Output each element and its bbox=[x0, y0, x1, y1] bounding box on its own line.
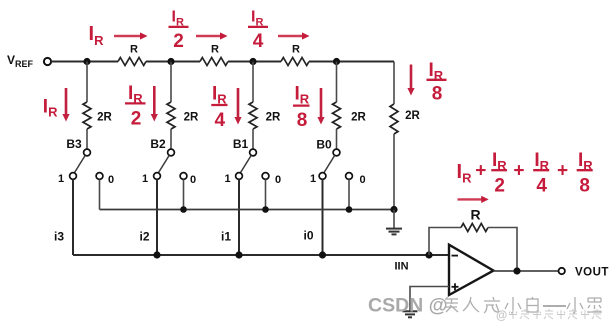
label 2R value terminating bbox=[405, 110, 420, 122]
svg-text:1: 1 bbox=[142, 173, 148, 185]
wire ground bus bbox=[100, 209, 395, 211]
formula fraction IR/4 bbox=[533, 150, 549, 197]
svg-text:2: 2 bbox=[131, 109, 142, 130]
label B2 bbox=[150, 137, 166, 151]
label VOUT bbox=[575, 266, 609, 278]
svg-text:2R: 2R bbox=[97, 112, 112, 124]
current arrow IR/8 (terminating branch, downward) bbox=[407, 65, 414, 96]
svg-text:i3: i3 bbox=[54, 230, 64, 244]
resistor 2R column B3 bbox=[83, 62, 91, 150]
formula fraction IR/2 bbox=[491, 150, 507, 197]
label R value 1 bbox=[130, 44, 138, 56]
switch B3 blade bbox=[75, 155, 86, 172]
resistor R (series, between node B2 and node B1) bbox=[200, 58, 228, 66]
svg-text:@: @ bbox=[496, 310, 507, 322]
switch B1 contact 0 bbox=[262, 173, 269, 180]
node ground bus B1 junction bbox=[262, 206, 269, 213]
label i1 bbox=[221, 230, 231, 244]
svg-text:B3: B3 bbox=[66, 137, 82, 151]
resistor 2R terminating bbox=[390, 104, 398, 134]
svg-text:+: + bbox=[557, 161, 568, 182]
svg-text:i2: i2 bbox=[139, 230, 149, 244]
label 0 (switch B0) bbox=[359, 174, 365, 186]
svg-text:2R: 2R bbox=[405, 110, 420, 122]
switch B0 contact 1 bbox=[319, 173, 326, 180]
current label IR/8 (terminating branch fraction) bbox=[427, 60, 447, 105]
wire B3 contact1 to i-bus bbox=[72, 180, 74, 256]
svg-text:R: R bbox=[292, 44, 300, 56]
svg-text:8: 8 bbox=[432, 84, 443, 105]
svg-text:B0: B0 bbox=[316, 138, 332, 152]
node ground bus terminating junction bbox=[390, 206, 397, 213]
node i-bus B0 junction bbox=[319, 251, 326, 258]
svg-text:2: 2 bbox=[494, 176, 505, 197]
current label IR (top, at node B3) bbox=[89, 23, 105, 48]
wire feedback loop right bbox=[488, 228, 517, 272]
node N1 (junction dot) bbox=[249, 58, 256, 65]
svg-text:+: + bbox=[513, 161, 524, 182]
svg-text:2R: 2R bbox=[351, 112, 366, 124]
wire B3 contact0 to ground bus bbox=[99, 180, 101, 210]
current label IR/4 (top fraction) bbox=[248, 9, 268, 53]
svg-text:2: 2 bbox=[173, 31, 184, 52]
switch B3 contact 0 bbox=[96, 173, 103, 180]
svg-text:B2: B2 bbox=[150, 137, 166, 151]
label B3 bbox=[66, 137, 82, 151]
svg-text:0: 0 bbox=[108, 174, 114, 186]
svg-text:1: 1 bbox=[310, 173, 316, 185]
resistor 2R column B1 bbox=[249, 62, 257, 150]
wire feedback loop left and top bbox=[429, 228, 461, 256]
label R value 2 bbox=[211, 44, 219, 56]
wire top rail segment 3 bbox=[228, 61, 281, 63]
node ground bus B2 junction bbox=[180, 206, 187, 213]
current label IR (column B3) bbox=[43, 97, 58, 120]
switch B1 pole bbox=[250, 149, 257, 156]
resistor R feedback bbox=[461, 224, 488, 232]
current arrow IR/2 (column B2, downward) bbox=[151, 86, 158, 122]
current arrow IR/2 (top, rightward) bbox=[196, 32, 228, 39]
node i-bus feedback junction bbox=[425, 251, 432, 258]
current arrow IR/8 (column B0, downward) bbox=[317, 88, 324, 125]
watermark juejin small glyphs bbox=[509, 309, 601, 319]
current label IR/4 (column B1 fraction) bbox=[211, 84, 227, 132]
label i2 bbox=[139, 230, 149, 244]
formula plus sign 2 bbox=[513, 161, 524, 182]
label R feedback value bbox=[470, 207, 480, 223]
switch B1 contact 1 bbox=[236, 173, 243, 180]
label i0 bbox=[303, 229, 313, 243]
node N2 (junction dot) bbox=[167, 58, 174, 65]
wire top rail segment 4 bbox=[309, 61, 394, 63]
watermark dash bbox=[543, 305, 566, 307]
watermark glyph 5 bbox=[527, 297, 538, 312]
switch B3 pole bbox=[84, 149, 91, 156]
wire i-bus bbox=[73, 254, 449, 256]
switch B3 contact 1 bbox=[70, 173, 77, 180]
switch B2 contact 0 bbox=[180, 173, 187, 180]
label 1 (switch B2) bbox=[142, 173, 148, 185]
wire B2 contact0 to ground bus bbox=[183, 180, 185, 210]
label 2R value column B1 bbox=[266, 112, 281, 124]
label 0 (switch B3) bbox=[108, 174, 114, 186]
watermark glyph 2 bbox=[463, 297, 479, 312]
resistor 2R column B0 bbox=[333, 62, 341, 150]
node i-bus B2 junction bbox=[153, 251, 160, 258]
svg-text:8: 8 bbox=[297, 110, 308, 131]
label 1 (switch B0) bbox=[310, 173, 316, 185]
label 2R value column B0 bbox=[351, 112, 366, 124]
current arrow IR (column B3, downward) bbox=[62, 88, 69, 122]
current label IR/2 (top fraction) bbox=[169, 9, 189, 53]
wire terminating branch top bbox=[393, 62, 395, 105]
svg-text:R: R bbox=[130, 44, 138, 56]
op-amp U1 bbox=[449, 245, 494, 295]
svg-text:+: + bbox=[475, 161, 486, 182]
svg-text:0: 0 bbox=[190, 174, 196, 186]
switch B2 pole bbox=[168, 149, 175, 156]
ground (bus) bbox=[386, 210, 402, 235]
svg-text:4: 4 bbox=[215, 110, 226, 131]
svg-text:IIN: IIN bbox=[394, 261, 408, 273]
label B0 bbox=[316, 138, 332, 152]
resistor R (series, between node B3 and node B2) bbox=[118, 58, 146, 66]
node i-bus B1 junction bbox=[235, 251, 242, 258]
formula sum label IR term bbox=[457, 161, 473, 186]
formula plus sign 1 bbox=[475, 161, 486, 182]
watermark glyph 4 bbox=[505, 297, 521, 313]
label 1 (switch B3) bbox=[58, 173, 64, 185]
svg-text:1: 1 bbox=[58, 173, 64, 185]
svg-text:2R: 2R bbox=[266, 112, 281, 124]
watermark glyph 7 bbox=[587, 298, 602, 312]
svg-text:8: 8 bbox=[579, 176, 590, 197]
wire B1 contact0 to ground bus bbox=[265, 180, 267, 210]
switch B0 contact 0 bbox=[346, 173, 353, 180]
switch B2 blade bbox=[159, 155, 170, 172]
wire B1 contact1 to i-bus bbox=[238, 180, 240, 256]
svg-text:0: 0 bbox=[359, 174, 365, 186]
svg-text:CSDN @: CSDN @ bbox=[368, 295, 448, 317]
node N3 (junction dot) bbox=[83, 58, 90, 65]
resistor 2R column B2 bbox=[167, 62, 175, 150]
current label IR/8 (column B0 fraction) bbox=[293, 84, 310, 132]
node output junction bbox=[513, 267, 520, 274]
label R value 3 bbox=[292, 44, 300, 56]
wire top rail segment 2 bbox=[146, 61, 200, 63]
wire top rail segment 1 bbox=[51, 61, 118, 63]
label VREF bbox=[7, 53, 34, 69]
ground (op-amp noninverting input) bbox=[403, 311, 418, 317]
label 2R value column B3 bbox=[97, 112, 112, 124]
label 0 (switch B2) bbox=[190, 174, 196, 186]
svg-text:B1: B1 bbox=[233, 137, 249, 151]
watermark glyph 1 bbox=[445, 297, 458, 312]
current arrow IR (top, rightward) bbox=[114, 32, 148, 39]
label IIN bbox=[394, 261, 408, 273]
svg-text:4: 4 bbox=[253, 31, 264, 52]
svg-text:i0: i0 bbox=[303, 229, 313, 243]
switch B0 blade bbox=[324, 155, 335, 172]
label i3 bbox=[54, 230, 64, 244]
terminal VREF bbox=[44, 58, 51, 65]
wire op-amp output bbox=[494, 270, 559, 272]
svg-text:R: R bbox=[211, 44, 219, 56]
node ground bus B0 junction bbox=[346, 206, 353, 213]
watermark CSDN text bbox=[368, 295, 448, 317]
terminal VOUT bbox=[559, 268, 565, 274]
watermark glyph 3 bbox=[484, 297, 500, 313]
wire terminating branch bottom bbox=[393, 134, 395, 210]
wire B0 contact1 to i-bus bbox=[322, 180, 324, 256]
svg-text:VOUT: VOUT bbox=[575, 266, 609, 278]
svg-text:1: 1 bbox=[224, 173, 230, 185]
node N0 (junction dot) bbox=[333, 58, 340, 65]
svg-text:4: 4 bbox=[536, 176, 547, 197]
watermark juejin small text bbox=[496, 310, 507, 322]
formula plus sign 3 bbox=[557, 161, 568, 182]
label 0 (switch B1) bbox=[275, 174, 281, 186]
switch B0 pole bbox=[333, 149, 340, 156]
wire op-amp noninverting input to ground bbox=[410, 287, 449, 312]
formula arrow (rightward) bbox=[458, 196, 489, 203]
wire B2 contact1 to i-bus bbox=[156, 180, 158, 256]
label 2R value column B2 bbox=[184, 112, 199, 124]
resistor R (series, between node B1 and node B0) bbox=[281, 58, 309, 66]
current label IR/2 (column B2 fraction) bbox=[125, 83, 146, 130]
svg-text:i1: i1 bbox=[221, 230, 231, 244]
svg-text:2R: 2R bbox=[184, 112, 199, 124]
wire B0 contact0 to ground bus bbox=[348, 180, 350, 210]
formula fraction IR/8 bbox=[577, 150, 594, 197]
switch B1 blade bbox=[241, 155, 252, 172]
watermark glyph 6 bbox=[567, 297, 583, 313]
svg-text:R: R bbox=[470, 207, 480, 223]
svg-text:0: 0 bbox=[275, 174, 281, 186]
current arrow IR/4 (top, rightward) bbox=[278, 32, 310, 39]
label 1 (switch B1) bbox=[224, 173, 230, 185]
label B1 bbox=[233, 137, 249, 151]
switch B2 contact 1 bbox=[154, 173, 161, 180]
current arrow IR/4 (column B1, downward) bbox=[234, 88, 241, 125]
